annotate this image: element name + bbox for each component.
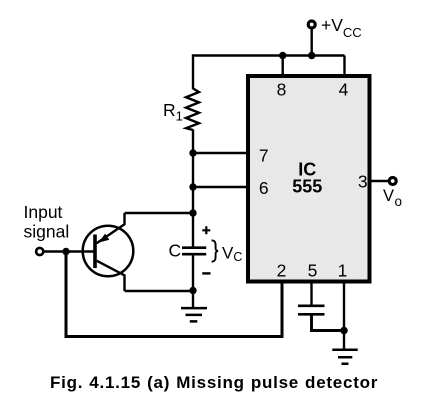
+Vcc terminal <box>308 21 315 28</box>
wire pin 8 stub <box>282 56 284 78</box>
svg-text:8: 8 <box>277 80 287 100</box>
svg-text:C: C <box>169 241 182 261</box>
wire collector to node <box>125 290 194 292</box>
wire pin 7 <box>193 152 250 154</box>
junction dot collector node <box>189 287 196 294</box>
brace <box>212 240 219 261</box>
wire emitter to node <box>125 212 194 214</box>
junction dot pin7 node <box>189 149 196 156</box>
svg-text:6: 6 <box>259 178 269 198</box>
junction dot emitter node <box>189 209 196 216</box>
junction dot input drop <box>62 248 69 255</box>
svg-text:signal: signal <box>24 221 70 241</box>
wire input to base <box>43 250 93 252</box>
wire top supply rail <box>193 56 345 90</box>
wire left vertical R1 to C <box>192 130 194 248</box>
svg-text:Fig. 4.1.15 (a) Missing pulse: Fig. 4.1.15 (a) Missing pulse detector <box>50 373 378 392</box>
transistor Q1 <box>83 213 134 291</box>
capacitor C <box>182 248 206 255</box>
svg-text:2: 2 <box>277 261 287 281</box>
svg-text:5: 5 <box>308 261 318 281</box>
wire Vcc stub <box>311 29 313 56</box>
junction dot ground node <box>340 327 348 335</box>
wire C2 to ground node <box>312 314 345 330</box>
svg-text:R1: R1 <box>163 100 183 124</box>
svg-text:VC: VC <box>222 244 242 265</box>
IC U1 555 body <box>248 76 370 282</box>
capacitor C2 pin5 bypass <box>298 306 325 315</box>
junction dot rail-pin8 <box>279 52 286 59</box>
wire pin 2 down-left to input drop <box>66 252 282 337</box>
svg-text:3: 3 <box>358 172 368 192</box>
svg-text:7: 7 <box>259 146 269 166</box>
Vo terminal <box>389 178 396 185</box>
svg-text:555: 555 <box>292 177 322 197</box>
resistor R1 <box>186 89 199 131</box>
svg-text:Input: Input <box>24 202 63 222</box>
wire pin 5 stub <box>310 280 312 306</box>
wire pin 6 <box>193 186 250 188</box>
svg-text:Vo: Vo <box>383 187 402 209</box>
svg-text:+VCC: +VCC <box>321 15 362 40</box>
svg-text:1: 1 <box>338 261 348 281</box>
wire pin 3 output <box>370 180 390 182</box>
wire pin 1 stub to ground <box>343 280 345 349</box>
input terminal <box>36 248 43 255</box>
junction dot rail-Vcc <box>308 52 315 59</box>
wire pin 4 stub <box>343 56 345 78</box>
svg-text:4: 4 <box>339 80 349 100</box>
label minus <box>202 272 210 274</box>
wire C to ground <box>192 254 194 308</box>
label plus <box>202 226 210 234</box>
ground right <box>332 350 357 364</box>
junction dot pin6 node <box>189 183 196 190</box>
ground left <box>181 308 207 321</box>
